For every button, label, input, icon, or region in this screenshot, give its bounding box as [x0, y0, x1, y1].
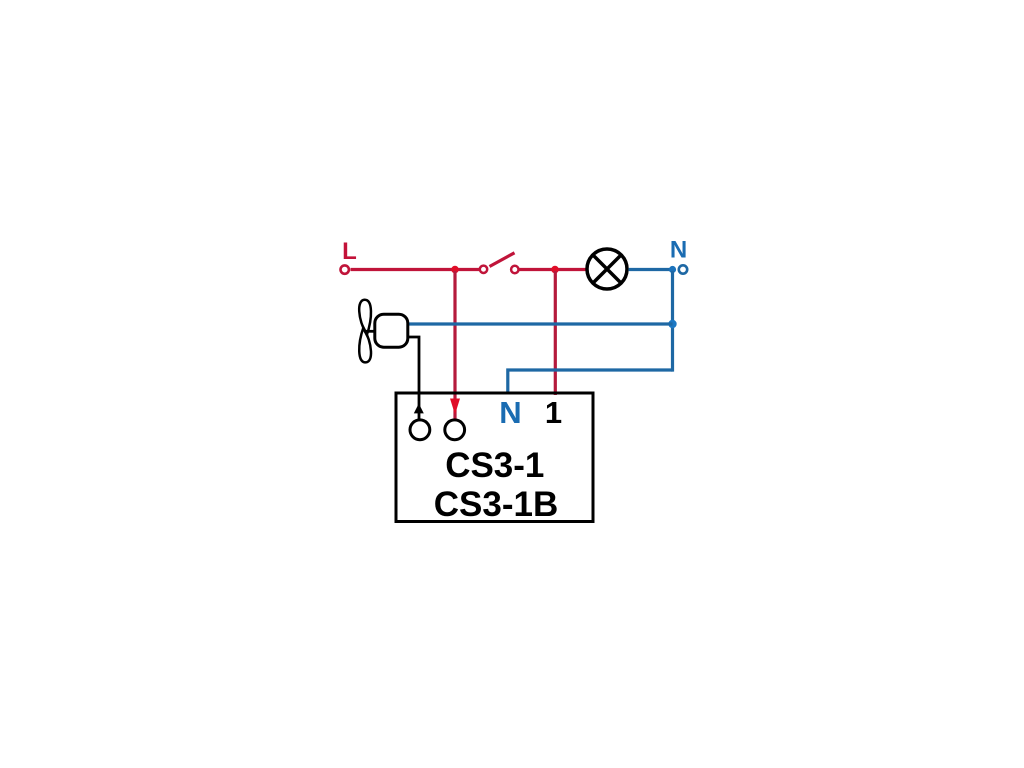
terminal fan circle	[410, 420, 430, 440]
controller box CS3-1	[396, 393, 593, 522]
wire blue route to pin N	[508, 370, 673, 394]
wire fan to N (blue horizontal)	[408, 322, 673, 325]
svg-text:N: N	[499, 395, 521, 430]
wire N vertical drop	[671, 271, 674, 372]
terminal N	[679, 265, 687, 273]
junction node blue at fan line	[668, 320, 676, 328]
terminal L	[341, 265, 349, 273]
terminal L circle	[445, 420, 465, 440]
wire L to switch	[351, 268, 480, 271]
svg-text:CS3-1B: CS3-1B	[434, 485, 558, 524]
wire switch to lamp	[520, 268, 587, 271]
svg-text:N: N	[670, 237, 687, 264]
wire red drop to pin 1	[554, 271, 557, 395]
lamp E1	[587, 249, 627, 289]
junction node at 455	[451, 266, 459, 274]
wire lamp to N	[629, 268, 673, 271]
svg-text:L: L	[342, 238, 357, 265]
junction node N top	[669, 266, 676, 273]
wire fan black to terminal (with arrow)	[408, 337, 424, 419]
svg-text:1: 1	[545, 395, 562, 430]
fan M1	[359, 300, 408, 363]
svg-text:CS3-1: CS3-1	[445, 446, 544, 485]
switch S1	[480, 253, 519, 273]
wire red drop to fan terminal (with arrow)	[450, 271, 460, 426]
junction node at 555	[551, 266, 559, 274]
